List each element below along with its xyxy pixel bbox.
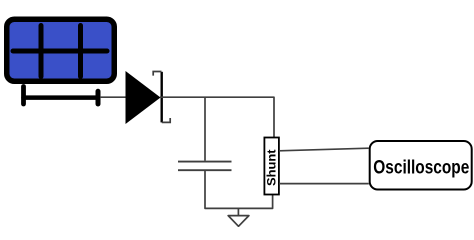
svg-text:Oscilloscope: Oscilloscope	[373, 156, 469, 178]
svg-text:Shunt: Shunt	[265, 149, 279, 186]
